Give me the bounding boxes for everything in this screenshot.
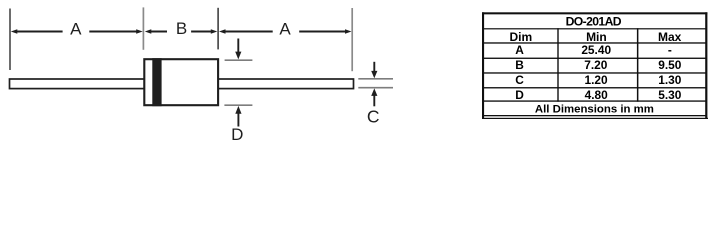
svg-text:D: D	[515, 88, 524, 102]
svg-text:5.30: 5.30	[658, 88, 682, 102]
svg-text:C: C	[367, 106, 380, 126]
svg-text:Dim: Dim	[509, 30, 532, 44]
svg-text:4.80: 4.80	[585, 88, 609, 102]
svg-text:9.50: 9.50	[658, 58, 682, 72]
svg-text:A: A	[515, 43, 524, 57]
svg-text:D: D	[231, 125, 243, 144]
svg-text:7.20: 7.20	[584, 58, 608, 72]
svg-text:A: A	[279, 20, 291, 39]
svg-text:Min: Min	[586, 30, 607, 44]
svg-text:B: B	[515, 58, 524, 72]
svg-text:1.30: 1.30	[658, 73, 682, 87]
svg-text:DO-201AD: DO-201AD	[566, 14, 622, 28]
svg-text:Max: Max	[658, 30, 682, 44]
svg-text:C: C	[515, 73, 524, 87]
svg-text:1.20: 1.20	[585, 73, 609, 87]
svg-text:B: B	[176, 19, 187, 38]
svg-text:All Dimensions in mm: All Dimensions in mm	[535, 104, 654, 116]
svg-text:A: A	[70, 20, 82, 39]
svg-text:25.40: 25.40	[581, 43, 611, 57]
svg-text:-: -	[668, 43, 672, 57]
